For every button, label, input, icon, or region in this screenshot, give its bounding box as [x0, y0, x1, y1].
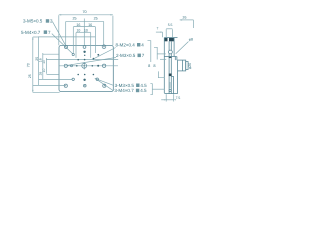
extension lines top	[59, 15, 113, 58]
side screw tip circle	[169, 89, 171, 91]
label 8-M2x0.4 depth4	[116, 42, 145, 47]
hole row59 dot	[77, 59, 79, 61]
label 3-M4x0.7 depth4.5	[114, 88, 147, 93]
hole bottom col solid	[83, 79, 85, 81]
bracket bottom-right labels	[150, 84, 152, 95]
knob body	[178, 60, 186, 71]
side dark rect B	[169, 38, 174, 41]
knob cap	[186, 62, 188, 70]
leader to label 2-M3x0.5	[67, 58, 116, 66]
wire long horizontal line y=59.6	[47, 59, 119, 61]
dimension 25 left column	[38, 37, 40, 85]
side dark bar 1	[169, 56, 172, 58]
hole bottom col open	[84, 84, 87, 87]
hole center row dot 4	[92, 65, 94, 67]
callout labels	[21, 19, 147, 94]
side box line	[171, 75, 173, 77]
leader from label 3-M5x0.5	[53, 22, 66, 45]
L leader to side view	[158, 71, 164, 77]
label 5-M4x0.7 depth7	[21, 30, 51, 35]
hole col dot 2	[84, 55, 85, 56]
svg-text:16: 16	[88, 23, 92, 27]
side gray fill	[169, 82, 171, 88]
hole mid diag 3	[72, 78, 74, 80]
svg-text:25: 25	[28, 74, 32, 78]
hole row74 dot 1	[77, 74, 79, 76]
svg-text:4.5: 4.5	[140, 88, 147, 93]
hole row74 dot 2	[84, 74, 86, 76]
svg-text:4: 4	[141, 42, 144, 47]
dimension 70 left column	[32, 37, 33, 92]
svg-text:φ8: φ8	[189, 38, 193, 42]
svg-text:10: 10	[42, 69, 46, 73]
side left edge	[163, 38, 165, 93]
side shelf	[164, 56, 176, 58]
side view texts	[148, 16, 193, 101]
svg-text:7: 7	[156, 26, 158, 30]
hole corner TR	[102, 45, 106, 49]
dimension 10 10 row	[76, 31, 91, 33]
svg-text:70: 70	[26, 63, 30, 67]
hole mid diag 2 dot	[97, 54, 99, 56]
svg-text:5-M4×0.7: 5-M4×0.7	[21, 30, 41, 35]
side lower right edge	[177, 71, 179, 94]
hole col solid 1	[83, 51, 85, 53]
knob neck	[175, 57, 177, 61]
dim 26 top right	[180, 19, 194, 28]
wire center row line y=65.8	[59, 65, 118, 67]
svg-text:8: 8	[153, 63, 155, 68]
hole center big	[82, 62, 87, 69]
plate outline (top view)	[59, 46, 113, 92]
hole mid diag 1	[72, 53, 74, 55]
hole corner BR	[103, 84, 106, 87]
phi8 leader	[176, 42, 189, 54]
side dark rect A	[164, 38, 167, 41]
svg-text:16: 16	[76, 23, 80, 27]
leader to label 3-M4x0.7	[95, 78, 114, 91]
svg-text:7: 7	[142, 53, 145, 58]
dimension 70 top row	[59, 14, 113, 15]
side shaft vert 1	[168, 41, 170, 93]
dimension 16 16 row	[73, 26, 95, 28]
hole row74 dot 3	[93, 74, 95, 76]
leader from label 5-M4x0.7	[52, 34, 73, 54]
knob inner line	[181, 60, 183, 71]
dimension 25 25 row	[66, 19, 104, 46]
svg-text:5.5: 5.5	[168, 23, 173, 27]
svg-text:26: 26	[183, 16, 187, 20]
hole center row dot 3	[76, 65, 78, 67]
svg-text:10: 10	[76, 29, 80, 33]
svg-text:10: 10	[84, 29, 88, 33]
svg-text:7: 7	[48, 30, 51, 35]
hole center top	[83, 46, 86, 49]
dimension 16 left column	[42, 53, 44, 79]
svg-text:3-M4×0.7: 3-M4×0.7	[114, 88, 134, 93]
hole mid diag 4	[96, 78, 98, 80]
hole center row right	[102, 64, 105, 67]
svg-text:8-M2×0.4: 8-M2×0.4	[116, 42, 136, 47]
svg-text:25: 25	[94, 17, 98, 21]
dim 5.5	[166, 29, 172, 37]
side shaft vert 2	[170, 41, 172, 93]
dimension 10 left column	[45, 58, 47, 74]
label 3-M3x0.5 depth4.5	[115, 83, 148, 88]
leader to label 8-M2x0.4	[93, 48, 116, 60]
svg-text:2-M3×0.5: 2-M3×0.5	[116, 53, 136, 58]
text dims top	[26, 10, 97, 78]
wire horizontal y=36.9	[38, 36, 96, 38]
hole corner TL	[64, 45, 67, 48]
side top edge	[164, 37, 177, 39]
side bottom edge	[164, 93, 177, 95]
side circle	[169, 50, 173, 54]
extension lines left	[33, 37, 73, 92]
svg-text:70: 70	[82, 10, 86, 14]
label 3-M5x0.5 depth3	[23, 19, 53, 24]
svg-text:10: 10	[42, 60, 46, 64]
mid verticals near 8 8	[148, 41, 167, 62]
wire y=89.2	[152, 88, 164, 90]
side right upper edge	[173, 38, 175, 57]
side view	[164, 38, 188, 94]
label 2-M3x0.5 depth7	[116, 53, 145, 58]
svg-text:3-M5×0.5: 3-M5×0.5	[23, 19, 43, 24]
hole center row 2	[71, 65, 73, 67]
holes group	[64, 45, 106, 87]
hole center row 5	[97, 65, 99, 67]
svg-text:25: 25	[73, 17, 77, 21]
dim 7.5 bottom	[161, 94, 176, 101]
hole corner BL	[64, 84, 67, 87]
hole center row left	[64, 64, 67, 67]
side dark bar 2	[169, 74, 172, 77]
dim 7	[156, 31, 163, 37]
side vert c	[173, 76, 175, 93]
svg-text:φ20: φ20	[188, 63, 192, 69]
svg-text:7.5: 7.5	[176, 96, 181, 100]
hole col dot 3	[84, 59, 86, 61]
svg-text:8: 8	[148, 63, 150, 68]
leader to label 3-M3x0.5	[98, 79, 114, 85]
side small dims	[148, 19, 194, 101]
svg-text:3: 3	[50, 19, 53, 24]
